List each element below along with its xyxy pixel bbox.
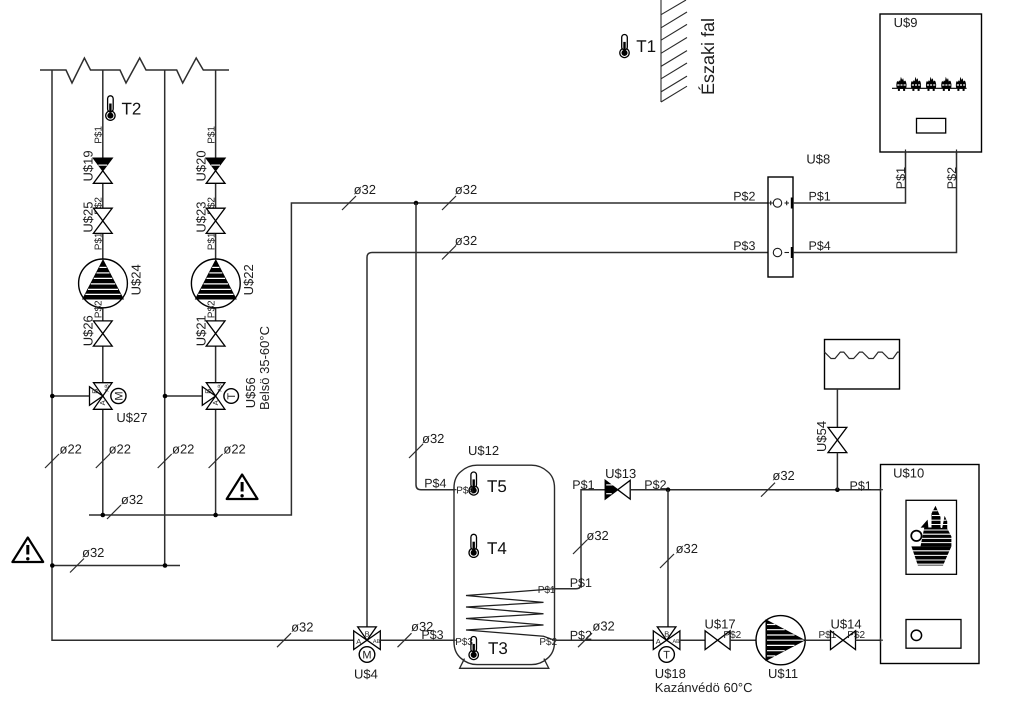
svg-text:ø32: ø32 [455,233,477,248]
svg-text:P$1: P$1 [206,232,217,250]
label ø32 tank riser slash [409,444,423,458]
svg-text:ø32: ø32 [676,541,698,556]
svg-text:ø32: ø32 [354,182,376,197]
svg-text:U$20: U$20 [193,150,208,181]
svg-text:T2: T2 [122,100,142,119]
valve U$21 [193,315,225,346]
svg-text:B: B [203,389,212,394]
svg-text:U$26: U$26 [81,315,96,346]
svg-text:ø22: ø22 [223,441,245,456]
svg-text:Kazánvédö 60°C: Kazánvédö 60°C [655,680,753,695]
label ø32 bottom pipe slash [277,633,291,647]
svg-text:M: M [362,650,371,662]
svg-text:T5: T5 [487,477,507,496]
gas boiler U$9 [880,14,982,152]
node junction U$18 riser [666,487,671,492]
node junction col2 on collector [213,513,218,518]
wire U$14 to boiler U$10 [856,639,881,641]
svg-text:U$25: U$25 [81,202,96,233]
valve U$4 three-way with actuator M [354,627,381,682]
svg-text:ø22: ø22 [172,441,194,456]
svg-text:B: B [91,389,100,394]
svg-text:Belsö 35-60°C: Belsö 35-60°C [257,326,272,410]
pin cross tank P$2 [552,638,557,643]
valve U$20 (top filled) [193,150,225,183]
wire supply collector y=515 up to header y=203 [89,203,768,515]
valve U$56 three-way with thermostatic actuator T [202,326,272,410]
svg-text:M: M [113,391,125,400]
wire riser to tank port P$4 [416,203,454,490]
label ø32 coil riser slash [573,540,587,554]
wire U$18 to U$17 [680,639,705,641]
label ø22 col2 slash [209,454,223,468]
svg-text:ø22: ø22 [60,441,82,456]
thermometer T1 [620,35,656,58]
svg-text:U$18: U$18 [655,666,686,681]
node junction col1 on collector [101,513,106,518]
valve U$18 three-way with thermostatic actuator T [653,627,752,695]
wire U$13 to boiler U$10 main supply [630,489,880,491]
svg-text:P$1: P$1 [819,630,837,641]
svg-text:AB: AB [105,384,111,392]
svg-text:ø32: ø32 [82,545,104,560]
pump U$24 [79,259,144,308]
svg-text:T: T [663,650,670,662]
label ø22 col1 slash [96,454,110,468]
svg-text:P$1: P$1 [850,479,872,493]
svg-text:AB: AB [373,639,381,645]
svg-text:A: A [98,400,107,405]
wire U$17 to pump U$11 [730,639,756,641]
tank feet skirt [460,659,549,669]
svg-text:ø32: ø32 [772,468,794,483]
wire U$8 P$1 to gas boiler U$9 [793,152,906,203]
svg-text:P$4: P$4 [456,485,474,496]
svg-text:U$8: U$8 [806,152,830,167]
svg-text:T4: T4 [487,539,507,558]
label ø32 header1b slash [442,196,456,210]
pin cross tank coil P$1 [552,586,557,591]
svg-text:ø32: ø32 [592,619,614,634]
valve U$19 (top filled) [81,150,113,183]
svg-text:U$4: U$4 [354,667,378,682]
svg-text:P$1: P$1 [538,585,556,596]
valve U$14 [819,617,866,650]
svg-text:U$12: U$12 [468,443,499,458]
label ø32 header1 slash [342,196,356,210]
svg-text:U$10: U$10 [893,465,924,480]
valve U$27 three-way mixing with actuator M [90,383,148,425]
wire column2 segments [215,70,217,515]
wire U$8 P$4 to gas boiler U$9 [793,152,957,253]
pin cross U$10 return [878,638,883,643]
svg-text:P$2: P$2 [733,190,755,204]
thermometer T2 [106,96,142,121]
expansion tank [825,340,900,390]
thermometer T3 [469,637,508,660]
node junction expansion riser [835,487,840,492]
svg-text:U$22: U$22 [241,264,256,295]
node junction x52 y396 [50,394,55,399]
svg-text:Északi fal: Északi fal [698,18,718,95]
svg-text:P$3: P$3 [733,239,755,253]
svg-text:P$1: P$1 [570,576,592,590]
svg-text:P$2: P$2 [945,167,959,189]
wire tank P$2 to valve U$18 [555,639,654,641]
node junction x52 on return collector [50,563,55,568]
svg-text:U$19: U$19 [81,150,96,181]
solid fuel boiler U$10 [881,465,980,664]
svg-text:AB: AB [673,639,681,645]
wire feed to U$56 [165,395,202,397]
wire expansion tank to valve U$54 [836,389,838,427]
svg-text:P$4: P$4 [809,239,831,253]
svg-text:P$1: P$1 [206,126,217,144]
svg-text:ø22: ø22 [109,441,131,456]
svg-text:P$1: P$1 [94,232,105,250]
wire U$54 down to supply pipe [836,453,838,490]
svg-text:P$3: P$3 [455,637,473,648]
valve U$13 (left filled) [605,466,636,499]
label ø32 return collector slash [70,559,84,573]
pin cross tank P$3 [452,638,457,643]
svg-text:ø32: ø32 [422,431,444,446]
svg-text:U$9: U$9 [894,15,918,30]
svg-text:P$1: P$1 [894,167,908,189]
svg-text:P$4: P$4 [424,476,446,490]
svg-text:U$54: U$54 [814,421,829,452]
valve U$25 [81,202,113,234]
pump U$22 [191,259,256,308]
pump U$11 [756,616,805,681]
wire riser down to U$18 [667,490,669,627]
valve U$17 [705,617,742,650]
svg-text:T1: T1 [636,37,656,56]
svg-text:B: B [365,630,370,639]
svg-text:ø32: ø32 [455,182,477,197]
node junction x165 y396 [163,394,168,399]
north wall hatched [661,0,687,102]
label ø22 col x165 slash [158,454,172,468]
wire feed to U$27 [52,395,89,397]
wire U$4 to tank P$3 [380,639,454,641]
svg-text:P$3: P$3 [421,628,443,642]
svg-text:U$21: U$21 [193,315,208,346]
svg-text:P$1: P$1 [572,478,594,492]
thermometer T5 [469,472,507,496]
wire left return main x=52 down to bottom pipe [52,70,354,640]
pin cross U$9 P$2 [954,150,959,155]
svg-text:U$23: U$23 [193,202,208,233]
svg-text:U$13: U$13 [605,466,636,481]
wire pump to valve U$14 [805,639,830,641]
node junction x165 on return collector [163,563,168,568]
node junction tank riser on header [414,201,419,206]
buffer tank U$12 body [454,443,555,668]
svg-text:T: T [226,393,238,400]
valve U$54 [814,421,847,453]
svg-text:ø32: ø32 [586,528,608,543]
wire header y=252.5 down to valve U$4 [367,253,768,628]
pin cross tank P$4 [452,487,457,492]
label ø32 U$18 riser slash [660,554,674,568]
label ø32 supply to boiler slash [761,483,775,497]
coil heat exchanger inside tank [466,589,555,640]
wood fire icon in U$10 [911,506,952,566]
valve U$23 [193,202,225,234]
wire return collector y=565.5 [52,565,180,567]
svg-text:P$1: P$1 [809,190,831,204]
svg-text:U$27: U$27 [116,410,147,425]
svg-text:B: B [664,630,669,639]
heat meter U$8 [768,152,830,277]
valve U$26 [81,315,113,346]
svg-text:T3: T3 [488,639,508,658]
wire return main x=164.7 [164,70,166,566]
svg-text:U$56: U$56 [243,377,258,408]
svg-text:U$11: U$11 [768,666,798,681]
wire column1 segments [102,70,104,515]
warning triangle 1 [12,538,43,563]
pin cross U$10 P$1 [878,487,883,492]
svg-text:U$24: U$24 [128,264,143,295]
svg-text:A: A [656,637,661,646]
burner flames U$9 [896,77,906,91]
thermometer T4 [469,534,507,558]
wire coil P$1 riser to valve U$13 [555,490,606,589]
label ø32 tank-U$18 slash [578,633,592,647]
svg-text:A: A [356,637,361,646]
wire top header with radiator breaks [40,58,229,83]
svg-text:A: A [211,400,220,405]
svg-text:P$2: P$2 [570,628,592,642]
svg-text:ø32: ø32 [121,492,143,507]
warning triangle 2 [227,475,258,500]
pin cross U$9 P$1 [903,150,908,155]
label ø32 before tank slash [398,633,412,647]
label ø32 supply collector slash [107,505,121,519]
label ø22 col x52 slash [45,454,59,468]
svg-text:ø32: ø32 [291,620,313,635]
label ø32 header2 slash [442,246,456,260]
svg-text:AB: AB [217,384,223,392]
